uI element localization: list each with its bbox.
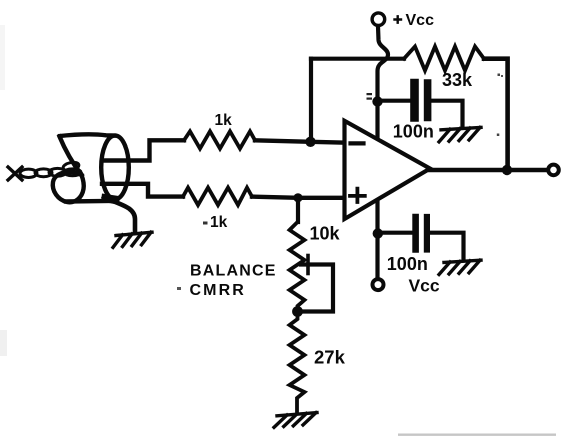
svg-text:1k: 1k bbox=[210, 214, 228, 231]
shield ground wire bbox=[104, 197, 135, 232]
pot wiper tick bbox=[306, 256, 310, 274]
capacitor C2 100n (bottom) bbox=[378, 231, 412, 235]
svg-text:33k: 33k bbox=[442, 70, 473, 90]
ground (bottom, 27k) bbox=[274, 413, 317, 428]
node: V- decoupling junction bbox=[373, 228, 383, 238]
wire +Vcc down to op-amp supply bbox=[378, 27, 389, 139]
scan artifacts bbox=[398, 434, 556, 436]
wire 33k to output (right side) bbox=[484, 59, 508, 170]
resistor R4 27k bbox=[290, 312, 305, 412]
svg-text:Vcc: Vcc bbox=[409, 276, 440, 296]
output terminal bbox=[548, 165, 559, 176]
wire cable bottom to R2 bbox=[102, 184, 183, 197]
node: wiper/bottom junction bbox=[292, 306, 303, 317]
ground (bottom cap) bbox=[439, 260, 481, 274]
output wire bbox=[430, 168, 547, 172]
resistor R1 1k (top) bbox=[184, 131, 255, 148]
op-amp plus symbol bbox=[350, 189, 365, 202]
capacitor C1 100n (top) bbox=[378, 99, 411, 103]
svg-text:100n: 100n bbox=[393, 121, 434, 141]
svg-text:Vcc: Vcc bbox=[406, 12, 435, 29]
wire R2 to op-amp non-inverting input bbox=[252, 197, 342, 198]
feedback top rail wire bbox=[311, 57, 404, 61]
resistor R2 1k (bottom) bbox=[183, 188, 252, 205]
+Vcc terminal bbox=[372, 13, 385, 26]
node: non-inverting input junction bbox=[293, 193, 302, 202]
op-amp U1 bbox=[345, 121, 431, 219]
pot wiper wire loop bbox=[301, 265, 333, 312]
svg-text:10k: 10k bbox=[310, 224, 341, 244]
feedback wire: inverting node up to top rail bbox=[309, 59, 313, 142]
ground (shield) bbox=[113, 232, 152, 247]
cable shield bbox=[53, 134, 129, 202]
node: inverting input junction bbox=[305, 137, 315, 147]
label +Vcc bbox=[395, 16, 402, 22]
op-amp minus symbol bbox=[351, 141, 364, 145]
svg-text:1k: 1k bbox=[215, 112, 233, 129]
node: output junction bbox=[502, 165, 512, 175]
wire cable top to R1 bbox=[102, 140, 184, 160]
ground (top cap) bbox=[439, 127, 481, 141]
svg-text:BALANCE: BALANCE bbox=[190, 263, 277, 280]
resistor R3 33k bbox=[404, 47, 484, 71]
svg-text:27k: 27k bbox=[314, 347, 346, 368]
node: V+ decoupling junction bbox=[372, 96, 382, 106]
twisted pair cable W1 bbox=[8, 161, 81, 180]
wire non-inverting node down to pot bbox=[296, 198, 300, 222]
-Vcc terminal bbox=[373, 279, 384, 290]
potentiometer P1 10k bbox=[290, 222, 305, 312]
svg-text:100n: 100n bbox=[387, 254, 428, 274]
wire R1 to op-amp inverting input bbox=[255, 140, 344, 142]
op-amp V- supply wire down bbox=[375, 201, 379, 277]
svg-text:CMRR: CMRR bbox=[190, 282, 246, 299]
